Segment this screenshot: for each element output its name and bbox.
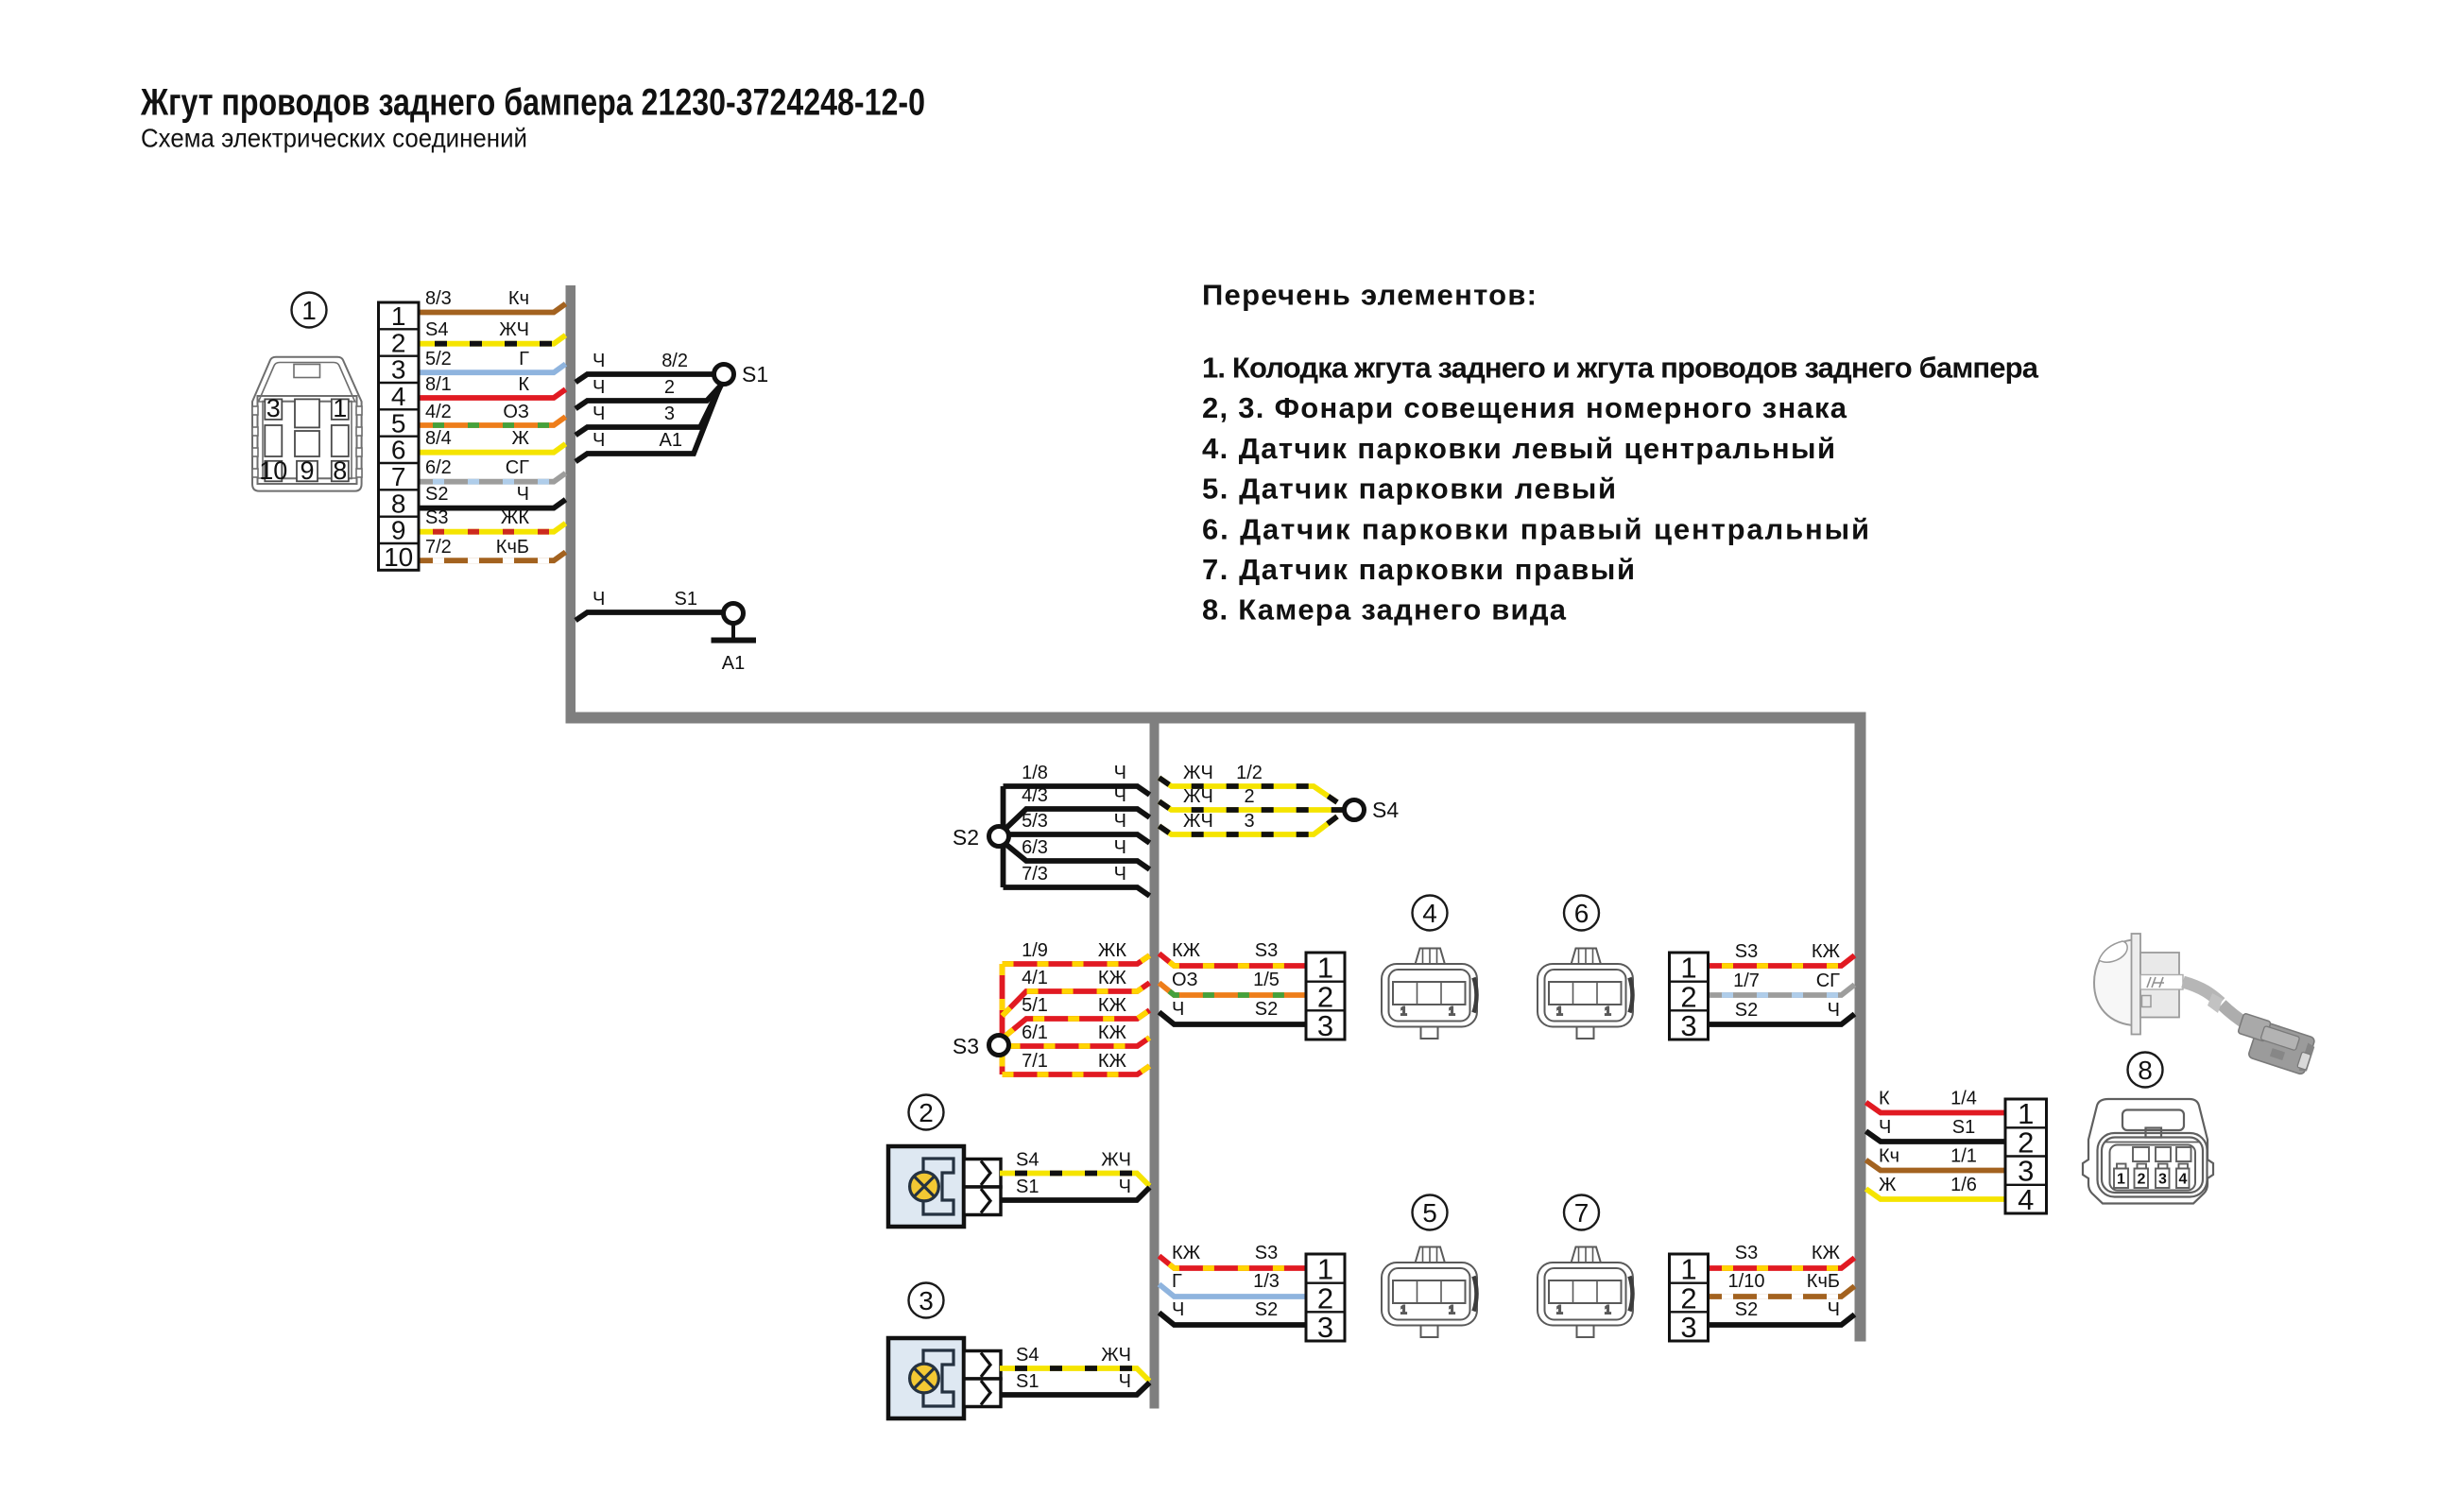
svg-text:Ч: Ч: [1172, 1299, 1184, 1320]
svg-text:2, 3. Фонари совещения номерно: 2, 3. Фонари совещения номерного знака: [1202, 391, 1847, 424]
svg-text:1/3: 1/3: [1253, 1271, 1280, 1292]
svg-text:10: 10: [384, 542, 413, 572]
svg-text:1: 1: [391, 301, 406, 331]
svg-text:1/6: 1/6: [1950, 1175, 1977, 1195]
svg-text:S1: S1: [1952, 1117, 1975, 1138]
svg-text:5. Датчик парковки левый: 5. Датчик парковки левый: [1202, 472, 1616, 506]
svg-text:ЖЧ: ЖЧ: [1101, 1345, 1131, 1366]
svg-text:Ч: Ч: [1114, 864, 1126, 885]
svg-text:Ч: Ч: [517, 484, 529, 505]
svg-text:СГ: СГ: [1816, 971, 1840, 991]
svg-text:КЖ: КЖ: [1172, 1243, 1201, 1263]
svg-text:1/7: 1/7: [1733, 971, 1760, 991]
svg-text:8: 8: [391, 489, 406, 518]
svg-text:1/4: 1/4: [1950, 1089, 1977, 1109]
svg-text:7/3: 7/3: [1022, 864, 1048, 885]
svg-text:1: 1: [301, 296, 317, 325]
svg-text:8/3: 8/3: [425, 288, 452, 309]
svg-text:А1: А1: [660, 430, 682, 451]
svg-text:S2: S2: [953, 825, 979, 850]
svg-text:Ч: Ч: [1114, 811, 1126, 832]
svg-text:5: 5: [1422, 1198, 1437, 1228]
svg-text:ЖК: ЖК: [1098, 940, 1126, 961]
svg-text:2: 2: [919, 1098, 934, 1127]
svg-text:7: 7: [1574, 1198, 1589, 1228]
svg-text:1/2: 1/2: [1236, 763, 1263, 783]
svg-text:8/1: 8/1: [425, 374, 452, 395]
svg-text:7/2: 7/2: [425, 537, 452, 558]
svg-text:Ч: Ч: [1119, 1371, 1131, 1392]
svg-text:ЖЧ: ЖЧ: [1183, 786, 1213, 807]
svg-text:4/2: 4/2: [425, 402, 452, 422]
svg-text:6: 6: [1574, 899, 1589, 928]
svg-text:КЖ: КЖ: [1812, 941, 1841, 962]
svg-text:1: 1: [333, 394, 347, 422]
svg-text:9: 9: [391, 516, 406, 545]
svg-text:2: 2: [1244, 786, 1254, 807]
svg-text:Ч: Ч: [593, 377, 605, 398]
svg-text:Кч: Кч: [508, 288, 529, 309]
svg-text:СГ: СГ: [506, 457, 529, 478]
svg-text:1. Колодка жгута заднего и жгу: 1. Колодка жгута заднего и жгута проводо…: [1202, 352, 2039, 385]
svg-text:S4: S4: [425, 319, 448, 340]
svg-text:S1: S1: [1016, 1371, 1039, 1392]
svg-text:ЖК: ЖК: [501, 507, 529, 528]
svg-text:Г: Г: [1172, 1271, 1182, 1292]
svg-text:КЖ: КЖ: [1172, 940, 1201, 961]
svg-text:ОЗ: ОЗ: [503, 402, 529, 422]
svg-text:1: 1: [2117, 1172, 2125, 1188]
svg-text:3: 3: [391, 355, 406, 385]
svg-text:6: 6: [391, 436, 406, 465]
svg-text:7/1: 7/1: [1022, 1051, 1048, 1072]
svg-text:1/8: 1/8: [1022, 763, 1048, 783]
svg-text:S4: S4: [1372, 798, 1399, 822]
svg-text:Ж: Ж: [512, 428, 530, 449]
svg-text:S1: S1: [1016, 1177, 1039, 1197]
svg-text:4: 4: [2018, 1183, 2034, 1216]
svg-text:Ч: Ч: [1114, 763, 1126, 783]
svg-text:2: 2: [391, 328, 406, 357]
svg-text:S2: S2: [1735, 1299, 1758, 1320]
svg-text:4. Датчик парковки левый центр: 4. Датчик парковки левый центральный: [1202, 432, 1835, 465]
svg-text:Жгут проводов заднего бампера: Жгут проводов заднего бампера 21230-3724…: [140, 82, 925, 124]
svg-text:4/1: 4/1: [1022, 968, 1048, 988]
svg-text:Ч: Ч: [1172, 999, 1184, 1020]
svg-text:3: 3: [2158, 1172, 2167, 1188]
svg-text:8: 8: [2138, 1056, 2153, 1085]
svg-text:S4: S4: [1016, 1150, 1039, 1171]
svg-text:5/3: 5/3: [1022, 811, 1048, 832]
svg-text:Ч: Ч: [1879, 1117, 1891, 1138]
svg-text:8/2: 8/2: [661, 351, 688, 371]
svg-text:10: 10: [259, 456, 287, 485]
svg-text:Схема электрических соединений: Схема электрических соединений: [141, 124, 527, 153]
svg-text:4/3: 4/3: [1022, 785, 1048, 806]
svg-text:Кч: Кч: [1879, 1146, 1899, 1167]
svg-text:1/1: 1/1: [1950, 1146, 1977, 1167]
svg-text:S2: S2: [425, 484, 448, 505]
svg-text:8/4: 8/4: [425, 428, 452, 449]
svg-text:КчБ: КчБ: [496, 537, 529, 558]
svg-text:3: 3: [919, 1286, 934, 1315]
svg-text:S4: S4: [1016, 1345, 1039, 1366]
svg-text:К: К: [1879, 1089, 1890, 1109]
svg-text:А1: А1: [722, 653, 745, 674]
svg-text:Г: Г: [519, 349, 529, 369]
svg-text:3: 3: [1244, 811, 1254, 832]
svg-text:6/3: 6/3: [1022, 837, 1048, 858]
svg-text:К: К: [518, 374, 529, 395]
svg-text:Ч: Ч: [1114, 837, 1126, 858]
svg-text:2: 2: [2138, 1172, 2146, 1188]
svg-text:Ч: Ч: [593, 430, 605, 451]
svg-text:S2: S2: [1255, 1299, 1278, 1320]
svg-text:КЖ: КЖ: [1812, 1243, 1841, 1263]
svg-text:Ж: Ж: [1879, 1175, 1897, 1195]
svg-text:ЖЧ: ЖЧ: [1101, 1150, 1131, 1171]
svg-text:КЖ: КЖ: [1098, 1051, 1127, 1072]
svg-text:КЖ: КЖ: [1098, 1022, 1127, 1043]
svg-text:S3: S3: [1735, 1243, 1758, 1263]
svg-text:4: 4: [391, 382, 406, 411]
svg-text:КЖ: КЖ: [1098, 968, 1127, 988]
svg-text:ЖЧ: ЖЧ: [1183, 763, 1213, 783]
svg-text:Ч: Ч: [1828, 1299, 1840, 1320]
svg-text:8: 8: [333, 456, 347, 485]
svg-text:4: 4: [1422, 899, 1437, 928]
svg-text:3: 3: [664, 404, 675, 424]
svg-text:1/9: 1/9: [1022, 940, 1048, 961]
svg-text:Ч: Ч: [1828, 1000, 1840, 1021]
svg-text:9: 9: [300, 456, 314, 485]
svg-text:6/1: 6/1: [1022, 1022, 1048, 1043]
svg-text:КЖ: КЖ: [1098, 995, 1127, 1016]
svg-text:8. Камера заднего вида: 8. Камера заднего вида: [1202, 593, 1567, 627]
svg-text:S2: S2: [1735, 1000, 1758, 1021]
svg-text:Ч: Ч: [593, 351, 605, 371]
svg-text:ОЗ: ОЗ: [1172, 970, 1198, 990]
svg-text:Ч: Ч: [593, 404, 605, 424]
svg-text:6/2: 6/2: [425, 457, 452, 478]
svg-text:S3: S3: [1255, 940, 1278, 961]
svg-text:7: 7: [391, 462, 406, 491]
svg-text:S3: S3: [953, 1034, 979, 1058]
svg-text:S1: S1: [742, 362, 768, 387]
svg-text:5/2: 5/2: [425, 349, 452, 369]
svg-text:5: 5: [391, 408, 406, 438]
svg-text:2: 2: [664, 377, 675, 398]
svg-text:S3: S3: [425, 507, 448, 528]
svg-text:ЖЧ: ЖЧ: [499, 319, 529, 340]
svg-text:1/10: 1/10: [1728, 1271, 1765, 1292]
svg-text:ЖЧ: ЖЧ: [1183, 811, 1213, 832]
svg-text:S2: S2: [1255, 999, 1278, 1020]
svg-text:Ч: Ч: [1119, 1177, 1131, 1197]
svg-text:Ч: Ч: [1114, 785, 1126, 806]
svg-text:S3: S3: [1255, 1243, 1278, 1263]
svg-text:КчБ: КчБ: [1807, 1271, 1840, 1292]
svg-text:Перечень элементов:: Перечень элементов:: [1202, 279, 1537, 312]
svg-text:Ч: Ч: [593, 589, 605, 610]
svg-text:4: 4: [2179, 1172, 2188, 1188]
svg-text:S1: S1: [675, 589, 697, 610]
svg-text:S3: S3: [1735, 941, 1758, 962]
svg-text:5/1: 5/1: [1022, 995, 1048, 1016]
svg-text:6. Датчик парковки правый цент: 6. Датчик парковки правый центральный: [1202, 512, 1869, 545]
svg-text:3: 3: [266, 394, 281, 422]
svg-text:1/5: 1/5: [1253, 970, 1280, 990]
